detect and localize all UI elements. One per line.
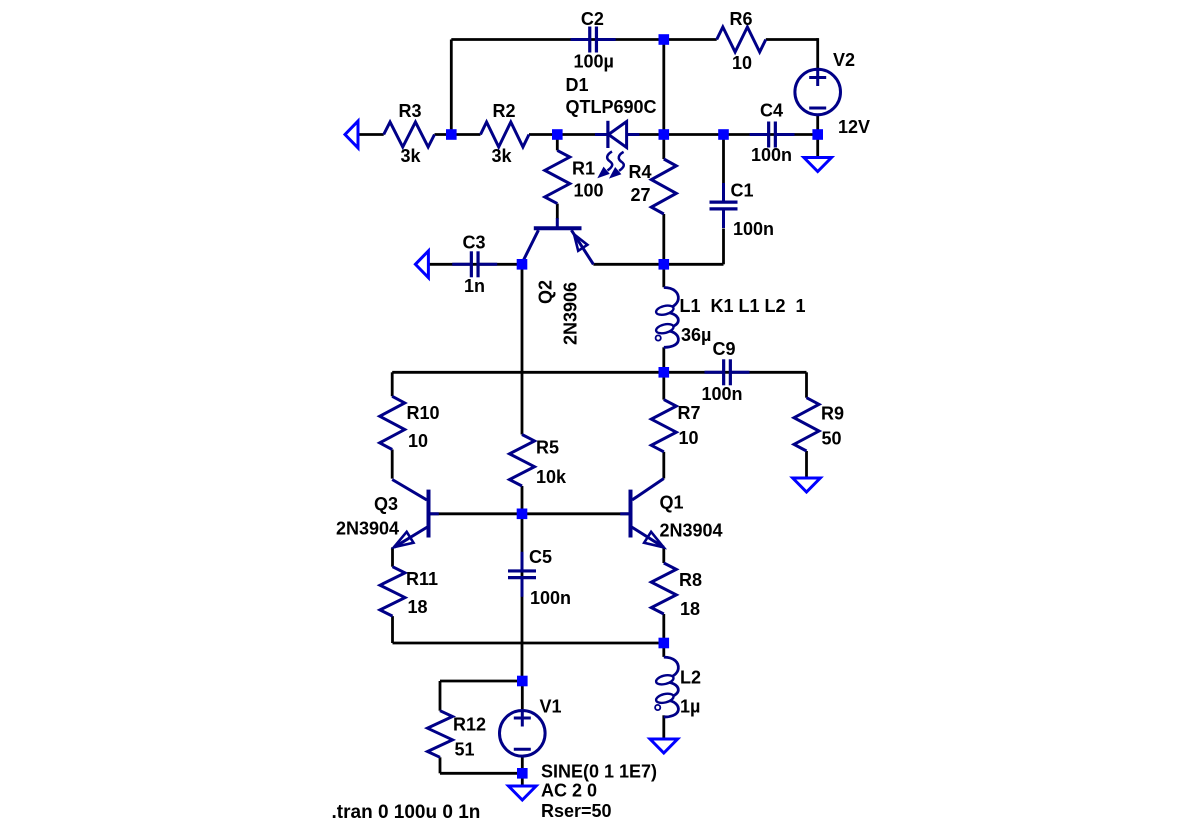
wire	[816, 38, 819, 68]
ground under V1	[509, 786, 537, 800]
voltage source V1	[500, 710, 546, 757]
wire	[805, 372, 808, 397]
svg-text:R8: R8	[679, 570, 702, 590]
svg-text:R1: R1	[572, 159, 595, 179]
transistor Q1 (NPN 2N3904)	[620, 479, 664, 548]
wire	[439, 757, 442, 773]
svg-text:Q2: Q2	[536, 280, 556, 304]
wire	[521, 681, 524, 709]
resistor R11	[380, 567, 438, 617]
svg-text:100n: 100n	[702, 384, 743, 404]
value 1u	[680, 697, 700, 717]
wire	[450, 40, 453, 135]
wire	[662, 40, 665, 135]
svg-text:V1: V1	[540, 697, 562, 717]
svg-text:C9: C9	[713, 339, 736, 359]
wire	[391, 547, 394, 566]
svg-text:QTLP690C: QTLP690C	[566, 97, 657, 117]
ground under L2	[650, 739, 678, 753]
wire	[662, 347, 665, 372]
junction node at (557.3,134.5)	[552, 129, 563, 140]
svg-text:R9: R9	[821, 404, 844, 424]
wire	[439, 681, 442, 711]
svg-text:1n: 1n	[464, 276, 485, 296]
resistor R4	[629, 159, 677, 214]
svg-text:2N3906: 2N3906	[561, 282, 581, 345]
capacitor C5	[508, 547, 571, 608]
svg-text:10: 10	[408, 431, 428, 451]
wire	[451, 38, 664, 41]
wire	[556, 204, 559, 219]
svg-text:R6: R6	[730, 9, 753, 29]
svg-text:10k: 10k	[536, 467, 567, 487]
svg-text:100: 100	[574, 181, 604, 201]
value AC	[541, 781, 597, 801]
svg-text:AC 2 0: AC 2 0	[541, 781, 597, 801]
resistor R8	[651, 563, 702, 619]
ground under V2	[804, 158, 832, 172]
port arrow left of C3	[415, 251, 428, 278]
wire	[805, 451, 808, 478]
wire	[358, 133, 384, 136]
junction node at (663.8,372.3)	[659, 367, 670, 378]
value 2N3904 (Q3)	[336, 519, 399, 539]
svg-text:Rser=50: Rser=50	[541, 801, 612, 821]
svg-text:C2: C2	[581, 9, 604, 29]
svg-text:36µ: 36µ	[681, 325, 711, 345]
value QTLP690C	[566, 97, 657, 117]
capacitor C1	[710, 181, 775, 240]
wire	[662, 135, 665, 160]
wire	[391, 616, 394, 643]
resistor R9	[794, 398, 844, 451]
wire	[521, 773, 524, 786]
wire	[662, 452, 665, 479]
transistor Q2 (PNP 2N3906)	[522, 218, 593, 264]
transistor Q3 (NPN 2N3904, mirrored)	[392, 480, 439, 548]
junction node at (451.3,134.5)	[446, 129, 457, 140]
wire	[722, 229, 725, 265]
value Rser	[541, 801, 612, 821]
svg-text:Q1: Q1	[660, 492, 684, 512]
inductor L1	[655, 288, 678, 348]
junction node at (663.8,643)	[659, 638, 670, 649]
wire	[521, 757, 524, 773]
junction node at (522,513.8)	[517, 509, 528, 520]
svg-text:R3: R3	[399, 101, 422, 121]
resistor R2	[481, 101, 530, 166]
port arrow left of R3	[345, 121, 358, 148]
svg-text:1µ: 1µ	[680, 697, 700, 717]
svg-text:C4: C4	[760, 101, 783, 121]
label Q1	[660, 492, 684, 512]
junction node at (663.8,134.5)	[659, 129, 670, 140]
wire	[662, 372, 665, 399]
svg-text:27: 27	[631, 185, 651, 205]
svg-text:L2: L2	[680, 668, 701, 688]
wire	[440, 772, 522, 775]
svg-text:L1 K1 L1 L2 1: L1 K1 L1 L2 1	[680, 296, 806, 316]
svg-text:R5: R5	[536, 438, 559, 458]
svg-text:R7: R7	[678, 403, 701, 423]
wire	[664, 371, 807, 374]
value SINE	[541, 762, 657, 782]
wire	[766, 38, 818, 41]
wire	[816, 116, 819, 158]
inductor L2	[655, 657, 678, 717]
svg-text:100n: 100n	[733, 219, 774, 239]
wire	[662, 715, 665, 739]
wire	[521, 514, 524, 681]
wire	[556, 135, 559, 151]
wire	[435, 133, 481, 136]
junction node at (663.8,264.3)	[659, 259, 670, 270]
LED D1 emission arrows	[599, 152, 624, 178]
wire	[662, 547, 665, 563]
svg-text:100n: 100n	[530, 588, 571, 608]
label Q3	[374, 494, 398, 514]
svg-text:C1: C1	[731, 181, 754, 201]
wire	[662, 214, 665, 287]
wire	[392, 371, 664, 374]
capacitor C4	[750, 101, 795, 166]
svg-text:50: 50	[822, 429, 842, 449]
resistor R10	[380, 396, 440, 451]
label L2	[680, 668, 701, 688]
label V1	[540, 697, 562, 717]
svg-text:10: 10	[679, 428, 699, 448]
value 36u	[681, 325, 711, 345]
value 12V	[838, 117, 870, 137]
label Q2	[536, 280, 556, 304]
junction node at (663.8,39.5)	[659, 34, 670, 45]
wire	[664, 38, 717, 41]
label V2	[833, 50, 855, 70]
label D1	[566, 75, 589, 95]
wire	[429, 512, 631, 515]
wire	[722, 135, 725, 184]
wire	[393, 642, 664, 645]
capacitor C3	[452, 232, 497, 295]
svg-text:18: 18	[408, 597, 428, 617]
svg-text:100n: 100n	[751, 145, 792, 165]
resistor R12	[428, 711, 487, 760]
LED D1 diode symbol	[595, 121, 639, 148]
svg-text:.tran 0 100u 0 1n: .tran 0 100u 0 1n	[332, 802, 481, 823]
wire	[391, 450, 394, 479]
svg-text:10: 10	[732, 53, 752, 73]
value 2N3904 (Q1)	[660, 521, 723, 541]
junction node at (522.3,681)	[517, 676, 528, 687]
svg-text:R12: R12	[453, 715, 486, 735]
wire	[521, 486, 524, 514]
wire	[557, 133, 608, 136]
capacitor C9	[702, 339, 750, 404]
resistor R7	[651, 400, 700, 452]
resistor R6	[717, 9, 766, 73]
wire	[664, 263, 724, 266]
junction node at (817.7,134.5)	[812, 129, 823, 140]
wire	[593, 263, 663, 266]
svg-text:V2: V2	[833, 50, 855, 70]
svg-text:3k: 3k	[492, 146, 513, 166]
wire	[521, 264, 524, 434]
svg-text:51: 51	[455, 740, 475, 760]
svg-text:3k: 3k	[401, 146, 422, 166]
junction node at (522,264.3)	[517, 259, 528, 270]
capacitor C2	[571, 9, 616, 72]
svg-text:2N3904: 2N3904	[336, 519, 399, 539]
svg-text:Q3: Q3	[374, 494, 398, 514]
resistor R1	[545, 150, 604, 203]
svg-text:R11: R11	[406, 569, 438, 589]
wire	[391, 372, 394, 396]
junction node at (522.3,773.3)	[517, 768, 528, 779]
voltage source V2	[795, 69, 841, 115]
spice directive .tran	[332, 802, 481, 823]
wire	[662, 614, 665, 643]
svg-text:R2: R2	[493, 101, 516, 121]
ground under R9	[793, 478, 821, 492]
svg-text:100µ: 100µ	[574, 52, 614, 72]
resistor R3	[384, 101, 435, 166]
wire	[627, 133, 818, 136]
svg-text:18: 18	[680, 599, 700, 619]
wire	[529, 133, 557, 136]
svg-text:D1: D1	[566, 75, 589, 95]
svg-text:C3: C3	[463, 232, 486, 252]
svg-text:R10: R10	[407, 403, 440, 423]
resistor R5	[510, 435, 568, 488]
svg-text:C5: C5	[529, 547, 552, 567]
svg-text:12V: 12V	[838, 117, 870, 137]
wire	[662, 643, 665, 657]
value 2N3906	[561, 282, 581, 345]
junction node at (723.5,134.5)	[718, 129, 729, 140]
label L1 and K statement	[680, 296, 806, 316]
svg-text:2N3904: 2N3904	[660, 521, 723, 541]
wire	[440, 680, 522, 683]
svg-text:R4: R4	[629, 162, 652, 182]
wire	[428, 263, 522, 266]
svg-text:SINE(0 1 1E7): SINE(0 1 1E7)	[541, 762, 657, 782]
